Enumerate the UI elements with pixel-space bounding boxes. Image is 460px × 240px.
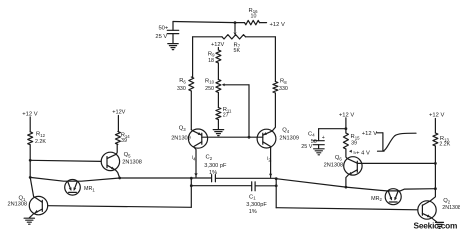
capacitor C2 3300pF — [211, 175, 213, 182]
wire bottom left to Q1 base — [48, 206, 192, 208]
svg-text:2.2K: 2.2K — [439, 142, 450, 148]
wire R9 to R10 — [217, 63, 219, 79]
svg-text:R6: R6 — [179, 78, 186, 84]
svg-text:330: 330 — [177, 86, 186, 92]
svg-text:50+: 50+ — [158, 26, 168, 32]
wire line A to Q6 emitter — [276, 179, 346, 187]
ground below bypass capacitor — [168, 44, 178, 50]
svg-text:+12V: +12V — [112, 110, 125, 116]
potentiometer R10 250 — [216, 79, 221, 92]
wire line B left (to C1) — [191, 185, 251, 187]
wire node X line (Q5 emitter to C2) — [120, 177, 212, 179]
node R12 bottom junction — [29, 159, 32, 162]
resistor R14 39 — [117, 115, 119, 131]
potentiometer R7 5K — [234, 24, 236, 32]
svg-text:R8: R8 — [280, 79, 287, 85]
node Y junction on line A — [275, 177, 278, 180]
wire R12 to junction — [29, 145, 31, 161]
node line B right junction — [275, 184, 278, 187]
svg-text:≈+ 4 V: ≈+ 4 V — [353, 151, 370, 157]
wire wiper down to base rail — [248, 85, 250, 137]
svg-text:Seekic.com: Seekic.com — [413, 220, 457, 230]
svg-text:MR1: MR1 — [84, 186, 95, 192]
svg-text:+12 V: +12 V — [362, 131, 377, 137]
resistor R6 330 — [189, 77, 194, 91]
ground below Q2 — [435, 222, 443, 228]
svg-text:C1: C1 — [249, 194, 256, 200]
svg-text:Q6: Q6 — [335, 155, 343, 161]
svg-text:+: + — [322, 135, 325, 141]
resistor R15 39 — [343, 133, 348, 149]
wire down to collector node — [29, 160, 31, 177]
svg-text:Q5: Q5 — [124, 152, 132, 158]
diode MR2 — [346, 187, 436, 191]
svg-text:3,300 pF: 3,300 pF — [204, 163, 227, 169]
svg-text:18: 18 — [208, 58, 214, 64]
+4V annotation — [349, 150, 352, 153]
node R13 bottom junction — [434, 162, 437, 165]
svg-text:250: 250 — [205, 86, 214, 92]
svg-text:2N1309: 2N1309 — [279, 135, 299, 141]
node junction R16/R7 wiper — [234, 21, 237, 24]
diode MR1 — [30, 177, 120, 181]
svg-text:+12V: +12V — [211, 42, 224, 48]
svg-text:2N1308: 2N1308 — [122, 159, 142, 165]
node Y stub down — [275, 179, 277, 208]
transistor Q5 2N1308 — [101, 152, 119, 170]
svg-text:R12: R12 — [36, 131, 46, 137]
wire Q6 base to R13 node — [357, 162, 435, 164]
node MR2 line junction — [434, 187, 437, 190]
transistor Q6 2N1308 — [344, 157, 362, 175]
transistor Q3 2N1309 — [188, 129, 207, 148]
svg-text:C2: C2 — [205, 155, 212, 161]
svg-text:2N1309: 2N1309 — [171, 135, 191, 141]
capacitor C1 3300pF — [251, 182, 253, 191]
svg-text:Q3: Q3 — [179, 126, 187, 132]
svg-text:39: 39 — [121, 138, 127, 144]
svg-text:+12 V: +12 V — [429, 113, 444, 119]
svg-text:Q4: Q4 — [282, 127, 290, 133]
node X stub junction — [190, 177, 193, 180]
svg-text:+12 V: +12 V — [270, 22, 285, 28]
transistor Q2 2N1308 — [418, 201, 436, 219]
ground below C4 — [314, 149, 325, 155]
svg-text:3,300pF: 3,300pF — [246, 202, 267, 208]
transistor Q4 2N1309 — [257, 129, 276, 148]
node Q6 emitter junction — [344, 186, 347, 189]
node C4 branch junction — [344, 127, 347, 130]
node base bias junction — [248, 136, 251, 139]
wire R7 left to R6 rail — [193, 36, 222, 38]
resistor R11 27 — [217, 92, 219, 107]
R10 wiper arrow — [222, 83, 225, 86]
wire R13 to base node — [434, 146, 436, 163]
svg-text:1%: 1% — [249, 209, 257, 215]
svg-text:39: 39 — [351, 140, 357, 146]
resistor R9 18 — [217, 47, 219, 50]
svg-text:5K: 5K — [234, 48, 241, 54]
svg-text:2N1308: 2N1308 — [7, 202, 27, 208]
wire C2 right to node Y — [216, 177, 277, 179]
wire R6 to Q3 collector — [190, 91, 192, 130]
svg-text:27: 27 — [223, 112, 229, 118]
node line B left junction — [190, 184, 193, 187]
wire bottom right to Q2 base — [276, 208, 418, 210]
wire down to MR2 node — [434, 163, 436, 188]
stub node X down — [190, 178, 192, 207]
resistor R8 330 — [273, 82, 278, 94]
node Q5 emitter junction — [118, 177, 121, 180]
svg-text:25 V: 25 V — [301, 144, 312, 150]
svg-text:C4: C4 — [308, 131, 315, 137]
ground below Q1 — [24, 218, 34, 224]
svg-text:25 V: 25 V — [155, 34, 167, 40]
svg-text:2N1308: 2N1308 — [324, 162, 344, 168]
svg-text:10: 10 — [251, 14, 257, 20]
resistor R13 2.2K — [434, 119, 436, 133]
svg-text:Q2: Q2 — [443, 198, 451, 204]
current arrow i2 — [270, 161, 272, 177]
resistor R16 10 — [235, 22, 245, 24]
svg-text:330: 330 — [279, 86, 288, 92]
current arrow i4 — [195, 161, 197, 177]
svg-text:2N1308: 2N1308 — [442, 205, 460, 211]
resistor R12 2.2K — [29, 117, 31, 132]
svg-text:+12 V: +12 V — [339, 112, 354, 118]
svg-text:R9: R9 — [208, 51, 215, 57]
capacitor 50uF 25V (supply bypass) — [172, 21, 174, 30]
svg-text:1%: 1% — [209, 170, 217, 176]
wire Q5 base — [30, 160, 101, 161]
wire top supply to node — [173, 21, 235, 22]
capacitor C4 50uF 25V — [319, 128, 346, 130]
svg-text:+12 V: +12 V — [22, 111, 37, 117]
transistor Q1 2N1308 — [29, 196, 47, 214]
svg-text:MR2: MR2 — [371, 196, 382, 202]
ground below R11 — [217, 120, 219, 130]
svg-text:2.2K: 2.2K — [35, 139, 46, 145]
base wire Q3-Q4 — [202, 136, 263, 138]
wire +12V to R15 — [345, 118, 347, 133]
node Q1 collector junction — [29, 176, 32, 179]
svg-text:R10: R10 — [205, 78, 215, 84]
wire line B right — [255, 185, 276, 187]
wire R7 right to R8 rail — [246, 36, 276, 38]
